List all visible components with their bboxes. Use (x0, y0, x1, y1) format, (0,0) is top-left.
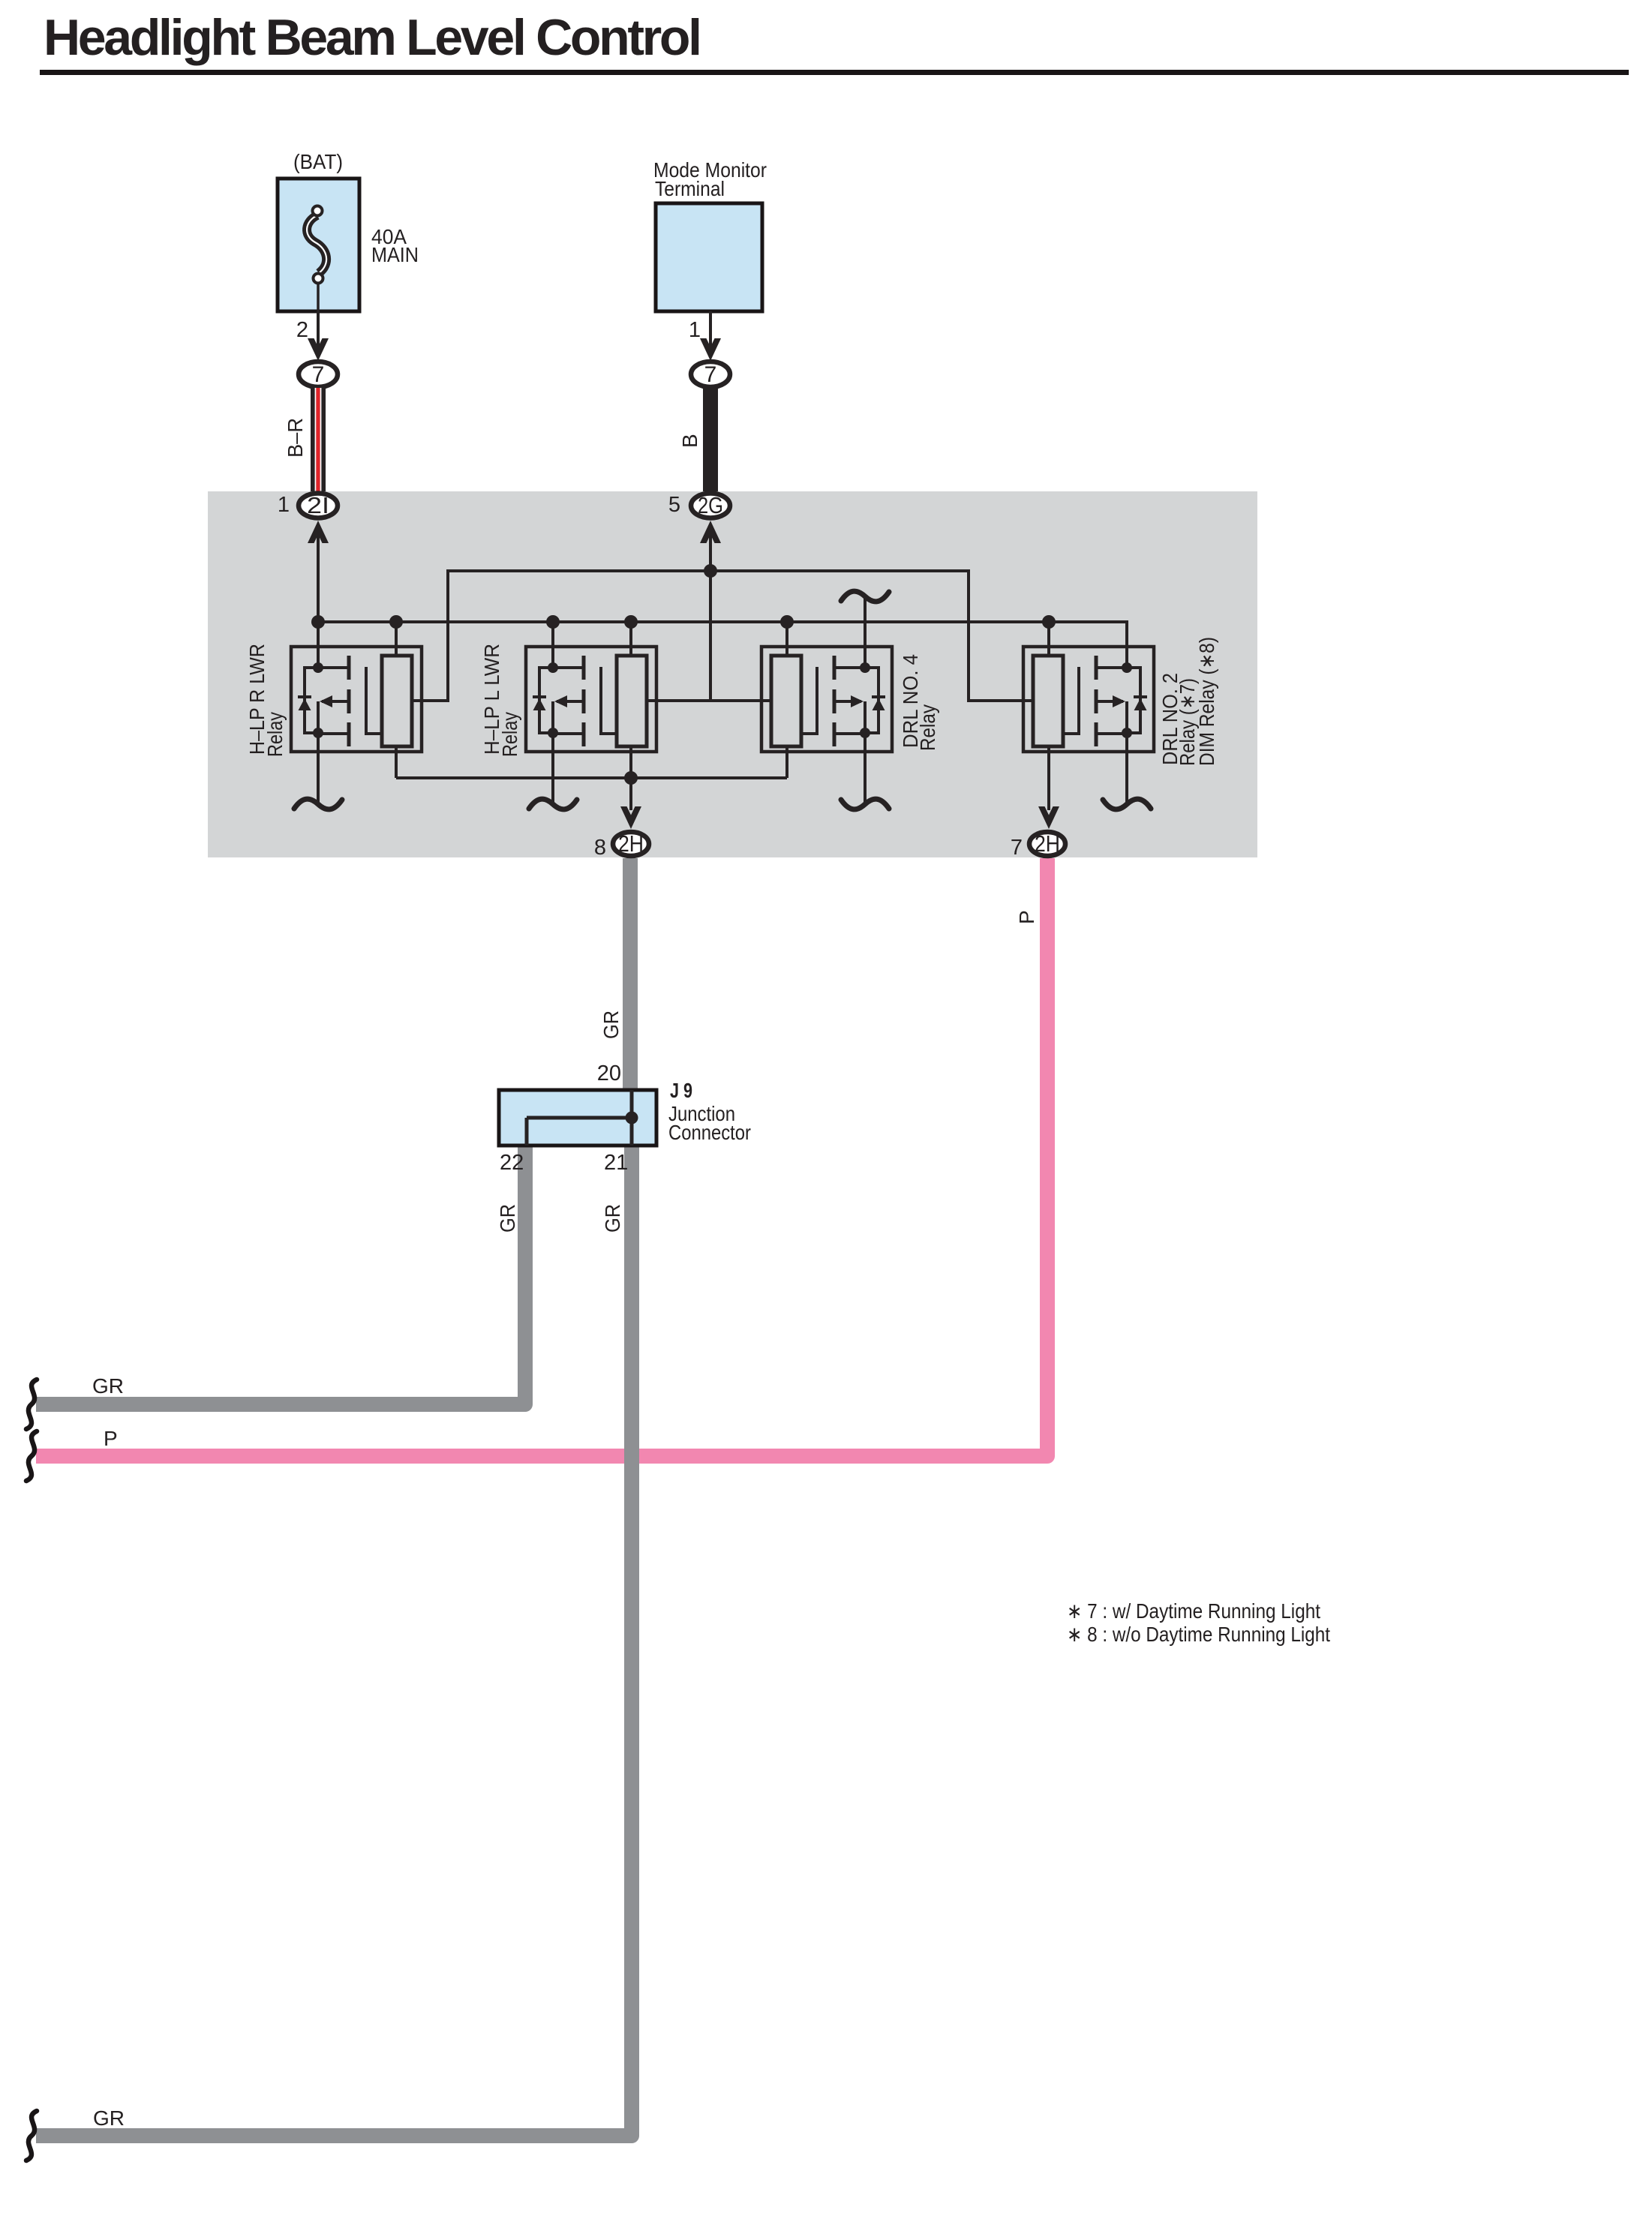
svg-text:∗ 8 : w/o Daytime Running Ligh: ∗ 8 : w/o Daytime Running Light (1067, 1623, 1330, 1646)
svg-text:GR: GR (599, 1010, 623, 1039)
svg-text:DIM Relay (∗8): DIM Relay (∗8) (1195, 637, 1218, 766)
svg-text:B–R: B–R (284, 418, 307, 458)
svg-text:P: P (104, 1427, 118, 1450)
svg-text:Terminal: Terminal (655, 177, 725, 200)
svg-text:MAIN: MAIN (371, 243, 419, 266)
svg-text:GR: GR (496, 1204, 519, 1233)
svg-text:Relay: Relay (916, 704, 939, 751)
svg-text:GR: GR (92, 1374, 124, 1398)
svg-text:J 9: J 9 (670, 1079, 692, 1102)
svg-text:2I: 2I (307, 492, 329, 518)
svg-text:2: 2 (296, 318, 308, 342)
svg-text:P: P (1015, 910, 1038, 924)
svg-text:1: 1 (689, 318, 701, 342)
svg-text:Relay: Relay (263, 712, 287, 757)
svg-text:7: 7 (1011, 836, 1023, 860)
svg-text:7: 7 (312, 362, 325, 387)
svg-text:(BAT): (BAT) (293, 150, 343, 173)
svg-text:2G: 2G (698, 492, 723, 518)
svg-text:8: 8 (594, 836, 606, 860)
svg-text:∗ 7 : w/ Daytime Running Light: ∗ 7 : w/ Daytime Running Light (1067, 1599, 1320, 1623)
svg-text:Connector: Connector (668, 1121, 751, 1144)
svg-text:Relay: Relay (498, 712, 521, 757)
svg-text:2H: 2H (1035, 830, 1060, 857)
svg-text:21: 21 (604, 1151, 628, 1175)
svg-text:GR: GR (93, 2106, 125, 2130)
svg-text:B: B (678, 434, 701, 448)
svg-text:7: 7 (704, 362, 717, 387)
svg-text:Headlight Beam Level Control: Headlight Beam Level Control (44, 9, 702, 66)
svg-text:2H: 2H (618, 830, 644, 857)
svg-text:20: 20 (597, 1061, 621, 1085)
svg-text:GR: GR (601, 1204, 624, 1233)
svg-text:1: 1 (278, 493, 290, 517)
svg-text:22: 22 (500, 1151, 524, 1175)
svg-text:5: 5 (668, 493, 680, 517)
